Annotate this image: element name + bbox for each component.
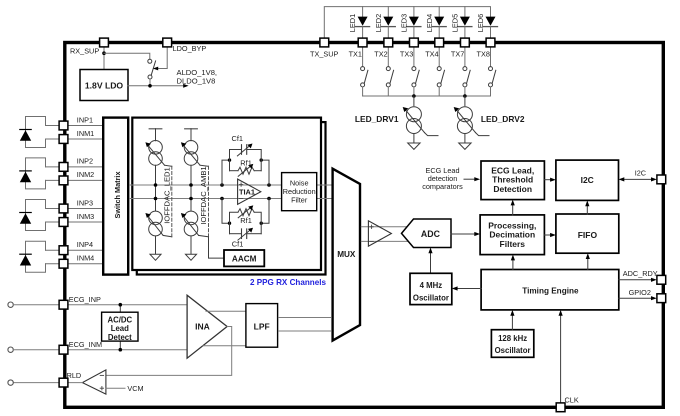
wire ADC_RDY: [619, 279, 653, 281]
switch S1 LDO bypass: [148, 59, 152, 63]
op-amp INA: [187, 295, 227, 358]
switch SW-TX8: [489, 47, 496, 96]
svg-text:Detection: Detection: [493, 184, 532, 194]
wire I2C to pin: [623, 178, 653, 180]
node AMB1 dac upper line: [189, 183, 193, 187]
wire Processing to FIFO: [544, 234, 551, 236]
wire ECG_INP: [13, 304, 187, 306]
wire ECG block to I2C: [544, 179, 551, 181]
wire LDO output ALDO/DLDO: [128, 85, 185, 87]
svg-text:RLD: RLD: [67, 371, 82, 380]
filter block Noise Reduction Filter: [282, 173, 317, 211]
pin INP4: [59, 246, 68, 255]
pin LDO_BYP: [163, 38, 172, 47]
node upper loop left: [228, 158, 231, 161]
pin TX4: [435, 38, 444, 47]
svg-text:LED5: LED5: [451, 14, 460, 33]
pin I2C: [657, 175, 666, 184]
wire TIA lower input line: [130, 198, 332, 200]
switch SW-TX7: [463, 47, 470, 96]
wire INA out upper: [206, 310, 246, 312]
svg-text:ECG_INM: ECG_INM: [69, 340, 102, 349]
dashed bracket IOFFDAC_LED1: [171, 166, 173, 237]
wire LED driver rail: [363, 95, 491, 97]
dashed bracket IOFFDAC_AMB1: [208, 166, 210, 237]
LED D3: [400, 7, 421, 38]
svg-text:IOFFDAC_LED1: IOFFDAC_LED1: [163, 167, 172, 224]
chip outline: [65, 43, 664, 408]
wire RLD output: [13, 382, 82, 384]
op-amp buffer: [368, 221, 391, 246]
node TIA in upper feedback tap: [220, 183, 224, 187]
block FIFO: [556, 214, 619, 253]
wire MUX to ADC lower: [361, 240, 408, 242]
svg-text:TIA1: TIA1: [239, 187, 255, 196]
ground arrow IOFFDAC_LED1: [150, 236, 161, 260]
svg-text:INA: INA: [195, 321, 210, 331]
LED D5: [451, 7, 472, 38]
pin INM2: [59, 176, 68, 185]
oscillator 4 MHz: [410, 273, 452, 304]
pin TX2: [384, 38, 393, 47]
wire ADC to Processing: [451, 233, 476, 235]
op-amp TIA1: [238, 179, 261, 204]
label ECG Lead detection comparators: [422, 166, 463, 191]
svg-text:1.8V LDO: 1.8V LDO: [85, 80, 124, 90]
svg-text:Filters: Filters: [500, 239, 526, 249]
svg-text:Oscillator: Oscillator: [495, 346, 531, 355]
svg-text:DLDO_1V8: DLDO_1V8: [177, 77, 216, 86]
wire IOFFDAC_LED1 vertical: [155, 165, 157, 211]
svg-text:ADC: ADC: [421, 229, 441, 239]
supply bar IOFFDAC_AMB1: [185, 129, 198, 141]
svg-text:Switch Matrix: Switch Matrix: [113, 171, 122, 218]
svg-text:TX4: TX4: [425, 50, 438, 59]
wire IOFFDAC_AMB1 vertical: [190, 165, 192, 211]
block Timing Engine: [481, 270, 619, 310]
svg-text:Rf1: Rf1: [240, 159, 252, 168]
svg-text:INP1: INP1: [77, 115, 93, 124]
svg-text:INM3: INM3: [77, 212, 94, 221]
svg-text:4 MHz: 4 MHz: [420, 281, 443, 290]
node LED1 dac upper line: [154, 183, 158, 187]
switch SW-TX2: [386, 47, 393, 96]
switch SW-TX4: [437, 47, 444, 96]
svg-text:Lead: Lead: [111, 324, 129, 333]
terminal ECG_INM: [8, 347, 13, 352]
adc ADC: [402, 219, 452, 248]
pin INP1: [59, 121, 68, 130]
LED D2: [374, 7, 395, 38]
capacitor Cf1 lower: [230, 228, 262, 249]
svg-text:INM2: INM2: [77, 170, 94, 179]
filter block LPF: [246, 304, 278, 348]
svg-text:INP2: INP2: [77, 157, 93, 166]
node lower loop left: [228, 222, 231, 225]
pin TX3: [410, 38, 419, 47]
wire VCM input: [106, 387, 125, 389]
oscillator 128 kHz: [491, 330, 533, 358]
wire AMB1 dac to AACM: [209, 237, 225, 258]
wire Processing to ECG block: [512, 204, 514, 215]
pin ADC_RDY: [657, 275, 666, 284]
pin TX_SUP: [320, 38, 329, 47]
svg-text:TX2: TX2: [374, 50, 387, 59]
PPG channel box (channel 1): [132, 118, 321, 270]
svg-text:2 PPG RX Channels: 2 PPG RX Channels: [250, 278, 327, 287]
pin CLK: [556, 403, 565, 412]
wire LED supply rail: [324, 7, 490, 38]
wire GPIO2: [619, 297, 653, 299]
wire upper feedback left: [222, 160, 230, 185]
wire upper feedback right: [261, 160, 269, 185]
svg-text:LED6: LED6: [476, 14, 485, 33]
regulator U-LDO 1.8V LDO: [80, 70, 128, 101]
svg-text:Detect: Detect: [108, 333, 132, 342]
wire INM4: [46, 263, 102, 265]
block Switch Matrix: [103, 118, 128, 275]
pin INM1: [59, 135, 68, 144]
svg-text:ALDO_1V8,: ALDO_1V8,: [177, 68, 218, 77]
svg-text:Rf1: Rf1: [240, 216, 252, 225]
svg-text:Filter: Filter: [291, 195, 308, 204]
block I2C: [556, 160, 619, 200]
pin TX7: [461, 38, 470, 47]
svg-text:LED2: LED2: [374, 14, 383, 33]
pin TX8: [486, 38, 495, 47]
wire INM2: [46, 179, 102, 181]
node lead detect top: [119, 303, 123, 307]
wire lead detect taps: [119, 305, 121, 313]
node lead detect bottom: [119, 348, 123, 352]
svg-text:I2C: I2C: [635, 169, 646, 178]
wire branch to LDO bypass switch: [104, 53, 150, 59]
pin GPIO2: [657, 294, 666, 303]
current source IOFFDAC_AMB1 top: [181, 141, 209, 167]
wire Timing to FIFO: [587, 257, 589, 269]
block ECG Lead Threshold Detection: [481, 161, 544, 200]
wire Timing to 4MHz osc: [456, 288, 481, 290]
svg-text:INM1: INM1: [77, 129, 94, 138]
wire FIFO to I2C: [586, 205, 588, 214]
svg-text:INP4: INP4: [77, 240, 93, 249]
wire 128kHz osc to Timing: [511, 314, 513, 330]
capacitor Cf1 upper: [230, 134, 262, 171]
current source IOFFDAC_AMB1 bottom: [181, 211, 209, 237]
svg-text:TX7: TX7: [451, 50, 464, 59]
node LDO output junction: [148, 84, 152, 88]
current source LED_DRV2: [454, 96, 525, 149]
resistor Rf1 lower: [230, 205, 262, 233]
wire comparators to ECG block: [464, 178, 476, 180]
ground arrow IOFFDAC_AMB1: [186, 236, 197, 260]
svg-text:LPF: LPF: [254, 322, 270, 332]
wire lower feedback right: [261, 199, 269, 224]
node TIA in lower feedback tap: [220, 197, 224, 201]
wire INM3: [46, 221, 102, 223]
wire RX_SUP to LDO: [103, 47, 105, 70]
svg-text:INP3: INP3: [77, 198, 93, 207]
svg-text:CLK: CLK: [565, 396, 579, 405]
svg-text:ECG_INP: ECG_INP: [69, 295, 101, 304]
svg-text:comparators: comparators: [422, 182, 463, 191]
svg-text:LED_DRV2: LED_DRV2: [481, 114, 525, 124]
svg-text:Cf1: Cf1: [232, 134, 244, 143]
photodiode PD3 loop: [20, 200, 46, 231]
svg-text:VCM: VCM: [127, 384, 143, 393]
pin INP3: [59, 204, 68, 213]
svg-text:Timing Engine: Timing Engine: [522, 286, 579, 295]
pin ECG_INP: [59, 300, 68, 309]
PPG channel box shadow (channel 2): [137, 122, 326, 274]
wire 4MHz osc to ADC: [430, 252, 432, 274]
svg-text:LDO_BYP: LDO_BYP: [173, 44, 207, 53]
block Processing Decimation Filters: [480, 215, 544, 255]
wire LDO_BYP to switch: [157, 47, 168, 68]
wire INA out lower: [203, 345, 246, 347]
switch SW-TX3: [412, 47, 419, 96]
pin INM4: [59, 259, 68, 268]
op-amp RLD driver: [82, 370, 106, 394]
node rail to LED_DRV1: [412, 94, 416, 98]
node upper loop right: [260, 158, 263, 161]
svg-text:IOFFDAC_AMB1: IOFFDAC_AMB1: [199, 166, 208, 224]
terminal ECG_INP: [8, 302, 13, 307]
resistor Rf1 upper: [230, 159, 262, 177]
pin INM3: [59, 218, 68, 227]
svg-text:AACM: AACM: [232, 254, 257, 263]
svg-text:LED_DRV1: LED_DRV1: [355, 114, 399, 124]
svg-text:MUX: MUX: [337, 250, 356, 259]
svg-text:Cf1: Cf1: [232, 240, 244, 249]
wire Timing to Processing: [512, 259, 514, 270]
node LED1 dac lower line: [154, 197, 158, 201]
LED D6: [476, 14, 497, 38]
wire TIA upper input line: [130, 184, 332, 186]
photodiode PD2 loop: [20, 158, 46, 189]
node rail to LED_DRV2: [463, 94, 467, 98]
wire INA to RLD amp feedback: [106, 327, 232, 376]
svg-text:FIFO: FIFO: [578, 230, 598, 240]
wire INP3: [46, 208, 102, 210]
node TIA out lower feedback tap: [267, 197, 271, 201]
wire INP2: [46, 166, 102, 168]
mux MUX: [333, 169, 360, 341]
pin ECG_INM: [59, 345, 68, 354]
node TIA out upper feedback tap: [267, 183, 271, 187]
supply bar IOFFDAC_LED1: [149, 129, 162, 141]
svg-text:AC/DC: AC/DC: [107, 315, 132, 324]
svg-text:RX_SUP: RX_SUP: [70, 46, 99, 55]
wire lower feedback left: [222, 199, 230, 224]
current source IOFFDAC_LED1 top: [145, 141, 171, 167]
pin RX_SUP: [100, 38, 109, 47]
pin RLD: [59, 378, 68, 387]
pin INP2: [59, 163, 68, 172]
wire CLK to Timing: [560, 314, 562, 406]
svg-text:INM4: INM4: [77, 254, 94, 263]
svg-text:TX1: TX1: [349, 50, 362, 59]
current source IOFFDAC_LED1 bottom: [145, 211, 171, 237]
LED D1: [348, 7, 369, 38]
svg-text:LED4: LED4: [425, 14, 434, 33]
wire INP4: [46, 249, 102, 251]
wire ECG_INM: [13, 349, 187, 351]
svg-text:Oscillator: Oscillator: [413, 293, 449, 302]
node RX_SUP branch: [102, 51, 106, 55]
switch SW-TX1: [361, 47, 368, 96]
wire MUX to ADC upper: [361, 226, 408, 228]
wire INP1: [46, 125, 102, 127]
svg-text:128 kHz: 128 kHz: [498, 334, 527, 343]
block AC/DC Lead Detect: [102, 312, 138, 342]
svg-text:I2C: I2C: [581, 175, 594, 185]
pin TX1: [358, 38, 367, 47]
svg-text:TX3: TX3: [400, 50, 413, 59]
LED D4: [425, 7, 446, 38]
svg-text:LED1: LED1: [348, 14, 357, 33]
terminal RLD: [8, 380, 13, 385]
wire LPF to MUX upper: [278, 317, 331, 319]
block AACM: [224, 250, 264, 266]
photodiode PD4 loop: [20, 241, 46, 272]
svg-text:GPIO2: GPIO2: [629, 288, 651, 297]
svg-text:TX_SUP: TX_SUP: [310, 50, 339, 59]
svg-text:TX8: TX8: [477, 50, 490, 59]
svg-text:LED3: LED3: [400, 14, 409, 33]
node AMB1 dac lower line: [189, 197, 193, 201]
current source LED_DRV1: [355, 96, 438, 149]
svg-text:ADC_RDY: ADC_RDY: [623, 269, 658, 278]
node lower loop right: [260, 222, 263, 225]
wire INM1: [46, 138, 102, 140]
photodiode PD1 loop: [20, 117, 46, 148]
wire LPF to MUX lower: [278, 330, 331, 332]
